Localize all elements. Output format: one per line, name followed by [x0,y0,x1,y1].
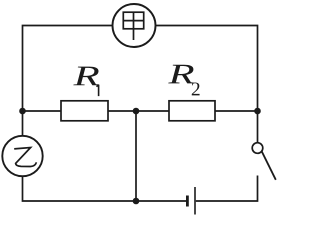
switch pivot (circle) [252,143,263,154]
meter 乙 character glyph [14,148,36,167]
label R2 [168,65,199,96]
meter 甲 (circle) [113,4,156,47]
wire: top-left (ammeter 甲 left terminal, top-left corner, down left rail to node A) [23,26,113,112]
resistor R2 (box) [169,101,215,121]
wire: meter 乙 top terminal up to node A [22,111,24,136]
battery negative plate (short thick) [186,196,189,207]
resistor R1 (box) [61,101,108,121]
wire: top-right (ammeter 甲 right terminal, top-right corner, down right rail to node C) [156,26,258,112]
switch lever (open, angled down-right) [262,151,276,180]
wire: node A to resistor R1 left lead [23,110,62,112]
wire: switch fixed contact stub down to bottom-right corner and left to battery positive plate [196,176,258,202]
battery positive plate (long thin) [194,187,196,215]
wire: battery negative plate left to bottom-left corner and up to meter 乙 bottom terminal [23,176,187,201]
node C (junction dot, right rail / middle wire) [254,108,261,115]
wire: right rail from node C down to switch pivot [257,111,259,143]
meter 乙 (circle) [2,136,42,176]
wire: resistor R2 right lead to node C [215,110,258,112]
node D (junction dot, middle branch / bottom wire) [133,198,140,205]
wire: resistor R1 right lead through node B to resistor R2 left lead [108,110,169,112]
node A (junction dot, left rail / middle wire) [19,108,26,115]
meter 甲 character glyph [123,12,143,40]
label R1 [73,67,99,96]
node B (junction dot, between R1 and R2) [133,108,140,115]
wire: middle branch from node B down to node D on bottom wire [135,111,137,201]
